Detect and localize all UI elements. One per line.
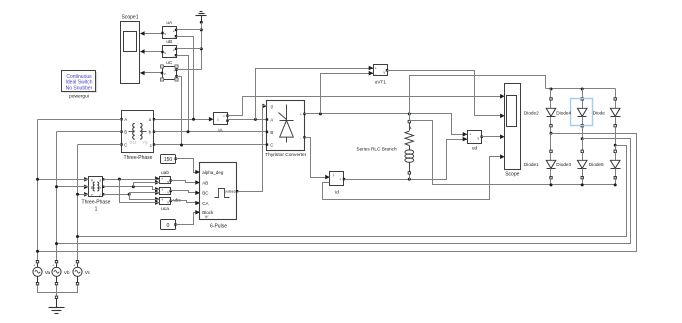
svg-text:id: id bbox=[335, 190, 339, 196]
svg-text:Diode1: Diode1 bbox=[524, 162, 539, 167]
svg-text:uca: uca bbox=[161, 207, 169, 212]
svg-text:D11: D11 bbox=[129, 140, 137, 145]
svg-text:A: A bbox=[124, 117, 127, 122]
svg-text:+: + bbox=[300, 113, 302, 117]
svg-text:a: a bbox=[99, 178, 101, 182]
svg-text:Thyristor Converter: Thyristor Converter bbox=[265, 152, 306, 158]
svg-text:pulses: pulses bbox=[224, 189, 235, 194]
svg-text:uC: uC bbox=[166, 60, 173, 66]
svg-text:Va: Va bbox=[45, 270, 51, 276]
svg-text:ud: ud bbox=[472, 146, 478, 152]
svg-text:v: v bbox=[167, 190, 169, 194]
svg-text:+: + bbox=[173, 48, 175, 52]
svg-text:+: + bbox=[339, 178, 341, 182]
svg-text:+: + bbox=[161, 198, 163, 202]
svg-text:AB: AB bbox=[202, 180, 208, 185]
svg-text:1: 1 bbox=[95, 207, 98, 213]
svg-text:v: v bbox=[383, 71, 385, 75]
svg-text:BC: BC bbox=[202, 191, 209, 196]
svg-text:Diode: Diode bbox=[593, 110, 606, 115]
svg-text:v: v bbox=[164, 50, 166, 55]
svg-text:i: i bbox=[218, 117, 219, 122]
svg-text:No Snubber: No Snubber bbox=[66, 86, 93, 92]
svg-text:+: + bbox=[173, 29, 175, 33]
svg-text:Three-Phase: Three-Phase bbox=[124, 155, 153, 161]
svg-text:b: b bbox=[99, 186, 101, 190]
svg-text:C: C bbox=[124, 143, 127, 148]
svg-text:+: + bbox=[161, 177, 163, 181]
svg-text:+: + bbox=[33, 264, 35, 268]
svg-text:uab: uab bbox=[161, 170, 169, 176]
svg-text:Series RLC Branch: Series RLC Branch bbox=[356, 146, 397, 151]
svg-text:v: v bbox=[164, 71, 166, 76]
svg-text:powergui: powergui bbox=[69, 93, 89, 99]
svg-text:v: v bbox=[164, 31, 166, 36]
svg-text:A: A bbox=[270, 118, 273, 123]
svg-text:0: 0 bbox=[167, 223, 170, 229]
svg-text:uVT1: uVT1 bbox=[375, 80, 387, 86]
svg-text:v: v bbox=[167, 180, 169, 184]
svg-text:Three-Phase: Three-Phase bbox=[82, 199, 111, 205]
svg-text:+: + bbox=[161, 188, 163, 192]
svg-text:C: C bbox=[270, 143, 273, 148]
svg-text:150: 150 bbox=[164, 157, 173, 163]
svg-text:v: v bbox=[477, 136, 479, 140]
svg-text:+: + bbox=[173, 69, 175, 73]
svg-text:6-Pulse: 6-Pulse bbox=[210, 223, 227, 229]
svg-text:+: + bbox=[375, 67, 377, 71]
svg-text:+: + bbox=[470, 133, 472, 137]
svg-text:Scope1: Scope1 bbox=[122, 15, 139, 21]
svg-text:Diode3: Diode3 bbox=[556, 162, 571, 167]
svg-text:Vc: Vc bbox=[85, 270, 91, 276]
svg-text:+: + bbox=[223, 115, 225, 119]
svg-text:Diode5: Diode5 bbox=[589, 162, 604, 167]
svg-text:Diode4: Diode4 bbox=[556, 110, 571, 115]
svg-text:+: + bbox=[73, 264, 75, 268]
svg-text:uA: uA bbox=[166, 20, 173, 26]
svg-text:i: i bbox=[333, 173, 334, 178]
svg-text:B: B bbox=[124, 130, 127, 135]
svg-text:Yg: Yg bbox=[143, 140, 148, 145]
svg-text:Vb: Vb bbox=[64, 270, 70, 276]
svg-text:Block: Block bbox=[202, 210, 214, 215]
svg-text:Diode2: Diode2 bbox=[524, 110, 539, 115]
svg-text:B: B bbox=[270, 130, 273, 135]
svg-text:v: v bbox=[167, 200, 169, 204]
svg-text:+: + bbox=[52, 264, 54, 268]
svg-text:Scope: Scope bbox=[505, 171, 519, 177]
svg-text:CA: CA bbox=[202, 201, 208, 206]
svg-text:alpha_deg: alpha_deg bbox=[202, 170, 224, 175]
svg-text:uB: uB bbox=[166, 39, 172, 45]
